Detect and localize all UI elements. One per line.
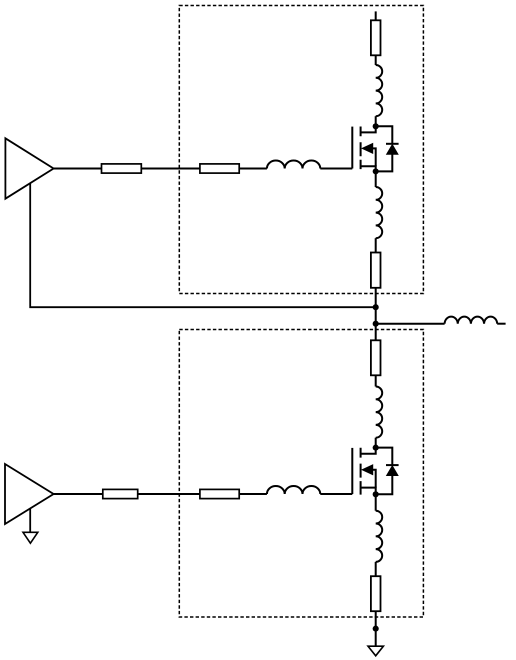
transistor Q1 (N-channel MOSFET) xyxy=(352,126,375,171)
supply stub wire (top) xyxy=(375,11,377,20)
wire node A to node B xyxy=(375,307,377,324)
wire R3 to L2 xyxy=(375,55,377,65)
node: Q1 drain junction xyxy=(373,123,379,129)
wire L3 to R4 xyxy=(375,238,377,252)
resistor R8 xyxy=(371,576,381,611)
node: Q2 source junction xyxy=(373,491,379,497)
driver amplifier U1 xyxy=(5,138,53,198)
wire U2 output to R5 xyxy=(54,493,103,495)
drain inductor L5 xyxy=(376,387,383,438)
wire L1 to Q1 gate xyxy=(320,168,352,170)
resistor R1 xyxy=(102,164,142,173)
wire R6 to L4 xyxy=(239,493,267,495)
wire R2 to L1 xyxy=(239,168,267,170)
body diode D2 xyxy=(376,448,399,495)
wire L2 to Q1 drain xyxy=(375,116,377,126)
node C (return junction) xyxy=(373,626,379,632)
module boundary box 1 (top switch cell) xyxy=(179,6,423,294)
resistor R2 xyxy=(200,164,239,173)
ground (U2 reference) xyxy=(23,532,38,543)
wire Q1 source to L3 xyxy=(375,171,377,187)
wire U1 output to R1 xyxy=(54,168,102,170)
node B (output junction) xyxy=(373,321,379,327)
resistor R4 xyxy=(371,253,381,288)
node: Q2 drain junction xyxy=(373,445,379,451)
output tail wire xyxy=(497,323,505,325)
wire L4 to Q2 gate xyxy=(320,493,352,495)
resistor R6 xyxy=(200,489,239,498)
node: Q1 source junction xyxy=(373,168,379,174)
wire R7 to L5 xyxy=(375,375,377,386)
wire L6 to R8 xyxy=(375,562,377,576)
wire U2 ref to ground xyxy=(29,508,31,532)
module boundary box 2 (bottom switch cell) xyxy=(179,330,423,618)
driver amplifier U2 xyxy=(5,464,54,524)
source inductor L3 xyxy=(376,187,383,238)
gate inductor L1 xyxy=(267,161,320,169)
feedback wire node A to U1 xyxy=(30,183,376,307)
wire R1 to R2 xyxy=(141,168,200,170)
resistor R5 xyxy=(103,489,138,498)
wire node B down to R7 xyxy=(375,324,377,341)
resistor R7 xyxy=(371,340,381,375)
gate inductor L4 xyxy=(267,486,320,494)
resistor R3 xyxy=(371,20,381,55)
output inductor L7 xyxy=(445,317,498,324)
ground (return) xyxy=(368,646,383,656)
transistor Q2 (N-channel MOSFET) xyxy=(352,448,375,495)
wire R5 to R6 xyxy=(138,493,200,495)
output wire node B to L7 xyxy=(376,323,445,325)
drain inductor L2 xyxy=(376,65,383,116)
wire Q2 source to L6 xyxy=(375,494,377,510)
body diode D1 xyxy=(376,126,399,171)
wire R8 to node C xyxy=(375,611,377,628)
wire L5 to Q2 drain xyxy=(375,438,377,448)
source inductor L6 xyxy=(376,511,383,562)
wire R4 to node A xyxy=(375,288,377,307)
wire node C to ground xyxy=(375,629,377,647)
node A (phase midpoint upper junction) xyxy=(373,304,379,310)
